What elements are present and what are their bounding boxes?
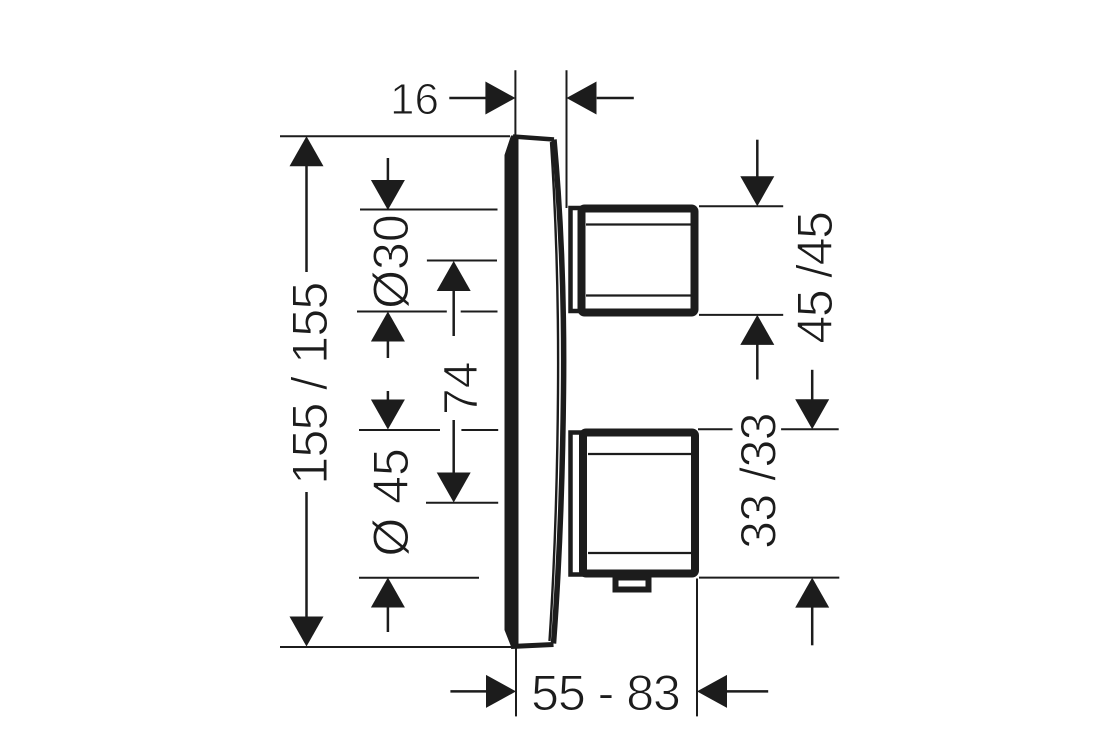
svg-text:16: 16 xyxy=(390,75,439,124)
svg-text:45 /45: 45 /45 xyxy=(787,212,843,343)
dim 55-83: tail right xyxy=(727,690,768,693)
dim O45: arrow up xyxy=(371,578,405,608)
dim 55-83: tail left xyxy=(450,690,487,693)
svg-text:74: 74 xyxy=(435,362,488,415)
dim 33/33: arrow down xyxy=(795,399,829,429)
bottom knob tab xyxy=(616,578,649,590)
dim 16: arrow right-pointing xyxy=(485,82,515,115)
ext line: knob1 bottom right xyxy=(699,314,783,316)
dim O45: tail bottom xyxy=(387,607,390,632)
dim 33/33: arrow up xyxy=(795,578,829,608)
dim 74: tail lower xyxy=(452,420,455,473)
dim O30: arrow up xyxy=(371,312,405,342)
dim 74: arrow up xyxy=(437,261,471,291)
dim 45/45: tail bottom xyxy=(756,344,759,379)
ext line: knob2 top left xyxy=(359,429,498,431)
plate top edge xyxy=(513,137,554,140)
dim 16: arrow left-pointing xyxy=(567,82,597,115)
plate left edge (thick bar) xyxy=(505,136,519,647)
bottom knob body xyxy=(583,433,695,574)
dim 33/33: tail top xyxy=(811,370,814,400)
ext line: 16 dim left vertical xyxy=(514,70,516,135)
dim O45: tail top xyxy=(387,391,390,400)
dim 45/45: tail top xyxy=(756,140,759,177)
dim O30: arrow down xyxy=(371,180,405,210)
dim 55-83: arrow left-pointing xyxy=(697,675,727,708)
dim O45: arrow down xyxy=(371,400,405,430)
ext line: plate bottom (155 dim) xyxy=(280,646,511,648)
ext line: knob1 top left xyxy=(360,209,498,211)
svg-text:33 /33: 33 /33 xyxy=(731,413,787,549)
svg-text:55 - 83: 55 - 83 xyxy=(531,665,680,721)
ext line: knob2 bottom right xyxy=(699,577,839,579)
ext line: plate top (155 dim) xyxy=(280,135,510,137)
ext line: knob2 center tick xyxy=(426,502,498,504)
ext line: 16 dim right vertical xyxy=(566,70,568,208)
dim 74: tail upper xyxy=(452,291,455,337)
dim 16: tail right xyxy=(597,97,634,100)
dim 155/155: lower line xyxy=(305,492,308,618)
ext line: knob1 top right xyxy=(699,205,783,207)
plate right curved edge xyxy=(554,140,564,644)
dim O30: tail top xyxy=(387,158,390,181)
dim 155/155: top arrow up xyxy=(290,136,324,166)
svg-text:Ø 45: Ø 45 xyxy=(363,448,419,556)
dim O30: tail bottom xyxy=(387,341,390,358)
ext line: 55-83 right vertical xyxy=(696,579,698,717)
ext line: knob1 bottom left xyxy=(357,311,498,313)
top knob body xyxy=(582,209,695,313)
dim 45/45: arrow down xyxy=(740,176,774,206)
ext line: knob1 center tick xyxy=(427,260,497,262)
dim 74: arrow down xyxy=(437,473,471,503)
plate inner curve xyxy=(550,142,559,641)
bottom knob inner line upper xyxy=(588,453,691,455)
ext line: knob2 bottom left xyxy=(359,577,479,579)
bottom knob inner line lower xyxy=(588,552,691,554)
dim 155/155: bottom arrow down xyxy=(290,617,324,647)
svg-text:Ø30: Ø30 xyxy=(363,214,419,309)
dim 33/33: tail bottom xyxy=(811,607,814,645)
ext line: knob2 top right xyxy=(698,428,839,430)
top knob inner line upper xyxy=(586,223,691,225)
top knob inner line lower xyxy=(586,294,691,296)
svg-text:155 / 155: 155 / 155 xyxy=(282,282,338,484)
top knob neck xyxy=(571,208,581,311)
dim 45/45: arrow up xyxy=(740,315,774,345)
bottom knob neck xyxy=(571,433,582,575)
dim 55-83: arrow right-pointing xyxy=(486,675,516,708)
dim 155/155: upper line xyxy=(305,166,308,272)
dim 16: tail left xyxy=(449,97,486,100)
ext line: 55-83 left vertical xyxy=(515,649,517,717)
plate bottom edge xyxy=(511,645,554,647)
